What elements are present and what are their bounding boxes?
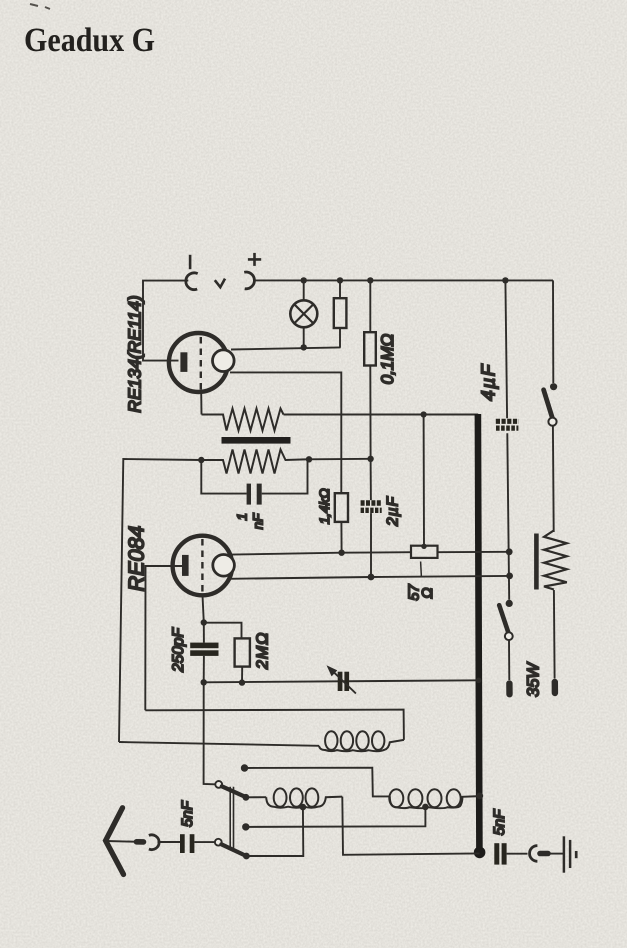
- plus terminal label: [248, 253, 261, 266]
- node 1,4k bottom junction: [338, 550, 344, 556]
- node 250pF bottom junction: [201, 679, 207, 685]
- switch coupling double line: [230, 787, 233, 848]
- resistor 0,1MOhm upper lead: [369, 280, 371, 332]
- switch S1 pivot: [548, 418, 556, 426]
- wire RE134 anode lower to resistor 1,4k: [230, 372, 341, 493]
- wire L2 tap down to contact: [246, 807, 303, 856]
- ground symbol: [563, 836, 566, 872]
- svg-text:5nF: 5nF: [491, 809, 508, 836]
- wire primary to thick bus top: [284, 414, 479, 416]
- switch S2 contact dot: [506, 600, 513, 607]
- coil L2 rings: [274, 788, 287, 806]
- svg-text:RE134(RE114): RE134(RE114): [125, 295, 145, 412]
- trimmer capacitor plates: [338, 672, 343, 691]
- node 57ohm box top: [421, 544, 426, 549]
- antenna lead: [107, 840, 135, 843]
- resistor 2MOhm upper lead: [204, 623, 242, 639]
- switch S2 arm: [499, 605, 509, 633]
- contact dot upper open: [241, 764, 248, 771]
- capacitor 250pF lower lead: [203, 656, 205, 682]
- capacitor 1nF plates: [247, 484, 251, 505]
- node secondary left junction: [198, 457, 204, 463]
- wire 57ohm to switch rail: [438, 551, 510, 553]
- node secondary right junction: [306, 456, 312, 462]
- svg-text:Ω: Ω: [420, 588, 436, 599]
- node L2 tap: [300, 804, 307, 811]
- capacitor 4uF plates: [496, 419, 519, 424]
- node grid-2M junction: [201, 619, 207, 625]
- battery jack right arc: [244, 272, 254, 289]
- node trimmer wire at bus: [476, 678, 482, 684]
- node 4uF top junction: [502, 277, 508, 283]
- wire L3 tap to contact: [246, 807, 426, 827]
- capacitor 1nF loop wire right: [262, 459, 308, 493]
- svg-text:2MΩ: 2MΩ: [254, 632, 271, 670]
- barretter heater zigzag: [544, 531, 567, 590]
- wire L2 right end down to earth rail: [342, 797, 479, 855]
- resistor 0,1MOhm box: [364, 332, 376, 365]
- scan speck top-left: [30, 4, 50, 9]
- capacitor 4uF lower lead: [507, 433, 509, 600]
- trimmer arrow: [334, 672, 356, 694]
- coil L3 baseline: [390, 796, 477, 808]
- switch S1 arm: [544, 390, 553, 418]
- plug pin barretter: [552, 682, 559, 693]
- node A junction 0,1M-2uF: [367, 456, 373, 462]
- coil L2 baseline: [266, 797, 342, 808]
- svg-text:Geadux G: Geadux G: [24, 22, 155, 59]
- antenna plug pin: [137, 839, 144, 845]
- switch S2 lower lead: [508, 640, 510, 680]
- ballast resistor box: [334, 298, 347, 328]
- wire top supply rail: [255, 279, 554, 281]
- earth plug pin: [540, 851, 548, 857]
- wire from 250pF node down to switch S3: [204, 682, 215, 784]
- resistor 1,4k lower lead: [340, 522, 342, 553]
- wire L1 left lead: [119, 742, 319, 746]
- wire RE084 cathode lead: [145, 566, 182, 710]
- svg-text:1,4kΩ: 1,4kΩ: [317, 488, 332, 524]
- RE084 grid lead down: [203, 595, 204, 622]
- wire 0,1M to node A: [369, 366, 371, 459]
- barretter core bar: [534, 534, 539, 590]
- svg-text:4µF: 4µF: [478, 363, 499, 401]
- node at 4uF rail y552: [506, 548, 513, 555]
- node at 4uF rail y576: [506, 573, 513, 580]
- thick bus end blob: [474, 847, 486, 859]
- lamp upper lead: [303, 280, 305, 300]
- wire RE134 anode to lamp node: [231, 347, 341, 349]
- plug pin S2: [506, 684, 513, 695]
- switch S2 pivot: [505, 632, 513, 640]
- capacitor 5nF antenna plates: [180, 834, 185, 853]
- node lamp top junction: [301, 277, 307, 283]
- triode RE134 envelope: [169, 333, 228, 392]
- wire L3 feed: [389, 795, 392, 797]
- wire S3 tip to coil L2: [246, 796, 266, 798]
- ballast resistor upper lead: [339, 280, 341, 298]
- wire socket to 5nF: [158, 841, 181, 843]
- thick bus line: [478, 414, 480, 848]
- wire coupling contact upper: [245, 768, 390, 797]
- switch S1 lower lead: [552, 426, 555, 532]
- capacitor 2uF lower lead: [370, 513, 372, 577]
- wire grid circuit left: [119, 459, 201, 742]
- RE134 cathode bar: [180, 352, 187, 372]
- resistor 2MOhm box: [235, 638, 250, 666]
- switch S3 arm: [222, 786, 245, 797]
- capacitor 1nF loop wire: [201, 460, 246, 494]
- barretter lower lead: [553, 590, 556, 679]
- resistor 1,4kOhm box: [335, 493, 348, 522]
- wire minus lead to RE134 cathode: [143, 281, 188, 361]
- minus terminal label: [189, 255, 192, 269]
- transformer secondary winding zigzag: [204, 450, 309, 474]
- contact dot middle: [242, 823, 249, 830]
- wire 57ohm branch vertical: [423, 415, 425, 546]
- node lamp-anode junction: [301, 344, 307, 350]
- node ballast top junction: [337, 277, 343, 283]
- battery jack left arc: [186, 273, 198, 290]
- node junction 57ohm branch top: [421, 411, 427, 417]
- node 2M bottom junction: [239, 679, 245, 685]
- coil L1 baseline: [319, 740, 404, 751]
- coil L3 rings: [389, 789, 403, 807]
- capacitor 5nF earth plates: [494, 843, 499, 864]
- RE084 grid dashed line: [201, 539, 203, 596]
- RE084 cathode bar: [182, 555, 189, 576]
- ballast resistor lower lead: [339, 328, 341, 348]
- coil L1 rings: [325, 731, 337, 750]
- node 2uF bottom junction: [368, 574, 375, 581]
- wire 5nF to switch S4: [194, 841, 214, 843]
- wire RE084 anode lower to 2uF node: [230, 576, 510, 579]
- antenna symbol: [106, 808, 124, 875]
- switch S3 tip dot: [243, 794, 250, 801]
- lamp: [290, 300, 317, 327]
- transformer iron core bar: [222, 437, 291, 444]
- switch S4 arm: [221, 844, 245, 855]
- svg-text:0,1MΩ: 0,1MΩ: [378, 334, 397, 385]
- triode RE084 envelope: [173, 536, 233, 596]
- wire tuning loop upper: [145, 710, 404, 740]
- label L: [215, 279, 225, 288]
- svg-text:1: 1: [234, 513, 249, 521]
- svg-text:nF: nF: [251, 513, 266, 530]
- transformer primary winding zigzag: [202, 409, 284, 431]
- svg-text:5nF: 5nF: [179, 800, 196, 827]
- lamp lower lead: [303, 327, 305, 347]
- wire RE084 anode to 57ohm rail: [231, 552, 411, 554]
- switch S4 pivot: [215, 839, 222, 846]
- node L3 right at bus: [476, 793, 483, 800]
- capacitor 250pF plates: [190, 643, 218, 649]
- wire 5nF to earth plug: [507, 853, 528, 855]
- svg-text:250pF: 250pF: [170, 626, 187, 672]
- switch S3 pivot: [215, 781, 222, 788]
- resistor 2MOhm lower lead: [241, 667, 243, 683]
- wire secondary to 2uF line: [309, 458, 371, 461]
- node L3 tap: [422, 804, 429, 811]
- RE134 anode loop: [213, 350, 235, 372]
- capacitor 2uF plates: [361, 500, 382, 505]
- node 0,1M top junction: [367, 277, 373, 283]
- antenna socket arc: [149, 835, 159, 850]
- RE134 grid lead: [200, 393, 202, 415]
- switch S1 contact dot: [550, 383, 557, 390]
- wire right drop to switch S1: [552, 280, 554, 383]
- earth socket arc: [530, 846, 538, 862]
- svg-text:35W: 35W: [524, 662, 542, 697]
- svg-text:2µF: 2µF: [384, 495, 401, 527]
- RE134 grid dashed line: [200, 337, 202, 393]
- capacitor 2uF upper lead: [370, 459, 372, 500]
- capacitor 250pF upper lead: [203, 623, 205, 643]
- wire grid bottom to bus: [204, 680, 479, 682]
- label pointer 57ohm: [420, 562, 423, 578]
- switch S4 tip dot: [243, 853, 250, 860]
- wire pin to ground: [548, 853, 563, 855]
- capacitor 4uF upper lead: [505, 280, 507, 418]
- resistor 57ohm box: [411, 546, 438, 558]
- RE084 anode loop: [213, 555, 235, 577]
